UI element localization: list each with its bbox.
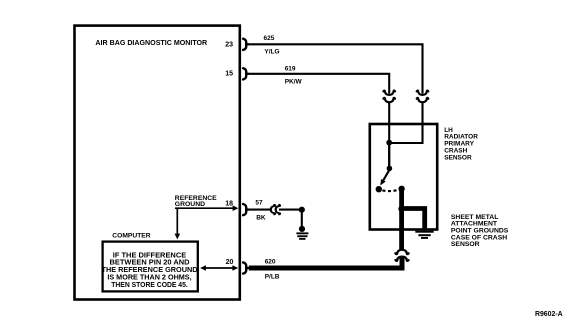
switch arm arrowhead: [380, 179, 385, 186]
switch output contact: [398, 186, 404, 192]
chassis ground G2 (sheet metal attachment): [415, 231, 433, 233]
heavy branch to case ground: [402, 209, 425, 231]
inline connector C2 upper half (wire 619): [383, 91, 395, 95]
svg-text:PK/W: PK/W: [285, 79, 303, 86]
svg-text:COMPUTER: COMPUTER: [112, 232, 150, 239]
inline connector C1 upper half (wire 625): [417, 91, 429, 95]
svg-text:619: 619: [285, 66, 296, 73]
chassis ground G1: [299, 226, 305, 232]
connector at pin 15: [243, 68, 248, 79]
svg-text:Y/LG: Y/LG: [264, 49, 279, 56]
inline connector C2 lower half (wire 619): [383, 98, 395, 102]
reference ground pointer to computer: [176, 208, 178, 234]
svg-text:GROUND: GROUND: [175, 201, 205, 208]
double arrow between computer and pin 20: [203, 267, 237, 269]
svg-text:625: 625: [264, 35, 275, 42]
wire 625: [247, 44, 422, 93]
wire 625 into sensor: [389, 102, 422, 143]
svg-text:RADIATOR: RADIATOR: [444, 134, 478, 141]
LH radiator primary crash sensor box: [370, 124, 437, 230]
wire to switch contact: [388, 143, 390, 168]
dashed actuation link: [382, 189, 397, 192]
svg-text:57: 57: [255, 199, 263, 206]
svg-text:AIR BAG DIAGNOSTIC MONITOR: AIR BAG DIAGNOSTIC MONITOR: [95, 39, 207, 47]
svg-text:SENSOR: SENSOR: [444, 154, 472, 161]
connector at pin 18: [243, 204, 248, 215]
inline connector C4 right half (wire 57, opens right): [276, 205, 280, 215]
svg-text:620: 620: [265, 258, 276, 265]
wire 620 (heavy): [249, 257, 402, 268]
inline connector C3 lower half (wire 620, opens down): [396, 257, 409, 261]
reference ground pointer to pin 18: [175, 207, 233, 209]
svg-text:SENSOR: SENSOR: [451, 241, 480, 248]
node: ground branch junction: [398, 206, 405, 213]
connector at pin 23: [243, 39, 248, 50]
wire 619: [247, 74, 389, 94]
air bag diagnostic monitor box: [75, 26, 240, 300]
switch moving contact: [376, 186, 382, 192]
wire 57 segment from pin 18: [247, 209, 270, 211]
svg-text:20: 20: [226, 259, 234, 266]
svg-text:15: 15: [225, 70, 233, 77]
svg-text:R9602-A: R9602-A: [535, 311, 563, 318]
connector at pin 20: [243, 262, 248, 273]
heavy ground lead down from switch: [399, 189, 404, 249]
switch fixed contact (upper): [387, 166, 393, 172]
svg-text:18: 18: [225, 200, 233, 207]
svg-text:THEN STORE CODE 45.: THEN STORE CODE 45.: [111, 280, 188, 289]
svg-text:P/LB: P/LB: [265, 274, 280, 281]
wire 619 into sensor: [388, 102, 390, 168]
node: junction of 625 and 619: [386, 140, 392, 146]
wire 57 segment to ground: [279, 209, 302, 211]
ground lead: [301, 210, 303, 228]
inline connector C1 lower half (wire 625): [417, 98, 429, 102]
node: wire 57 ground junction: [299, 207, 305, 213]
switch arm (crash sensor switch): [383, 170, 389, 181]
inline connector C3 upper half (wire 620, opens down): [396, 250, 409, 254]
inline connector C4 left half (wire 57, opens right): [271, 205, 275, 215]
svg-text:23: 23: [225, 42, 233, 49]
computer box: [103, 242, 198, 292]
svg-text:BK: BK: [256, 215, 266, 222]
